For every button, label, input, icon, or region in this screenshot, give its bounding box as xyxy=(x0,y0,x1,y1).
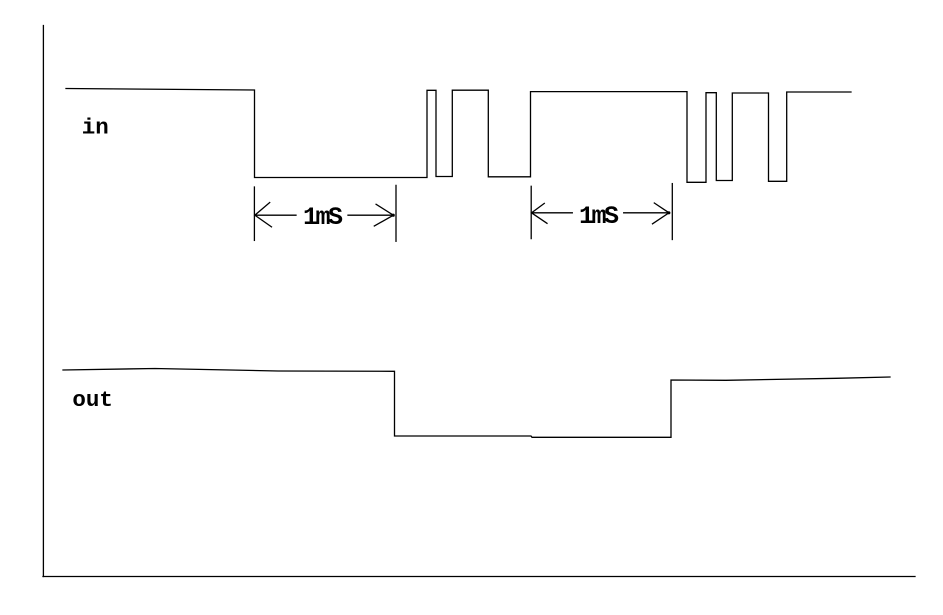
dimension 1 arrow line right xyxy=(348,214,393,216)
dimension 2 arrow line left xyxy=(532,212,573,214)
out waveform trace xyxy=(63,369,890,438)
dimension 2 left arrow xyxy=(532,203,548,223)
dimension 2 right arrow tip dot xyxy=(667,211,670,214)
svg-text:in: in xyxy=(82,114,109,140)
dimension 2 arrow line right xyxy=(624,212,669,214)
x-axis xyxy=(43,576,915,578)
dimension 1 right arrow xyxy=(374,204,393,226)
y-axis xyxy=(42,26,44,577)
dimension 1 right tick xyxy=(395,185,397,241)
dimension 1 left tick xyxy=(253,187,255,240)
svg-text:out: out xyxy=(72,387,113,413)
dimension 1 left arrow xyxy=(255,203,272,227)
dimension 1 arrow line left xyxy=(255,214,296,216)
dimension 2 right tick xyxy=(671,184,673,240)
dimension 1 right arrow tip dot xyxy=(392,214,395,217)
svg-text:1mS: 1mS xyxy=(303,203,343,232)
in waveform trace xyxy=(66,89,851,183)
dimension 2 left tick xyxy=(530,186,532,238)
dimension 2 right arrow xyxy=(653,203,670,224)
svg-text:1mS: 1mS xyxy=(579,202,619,231)
